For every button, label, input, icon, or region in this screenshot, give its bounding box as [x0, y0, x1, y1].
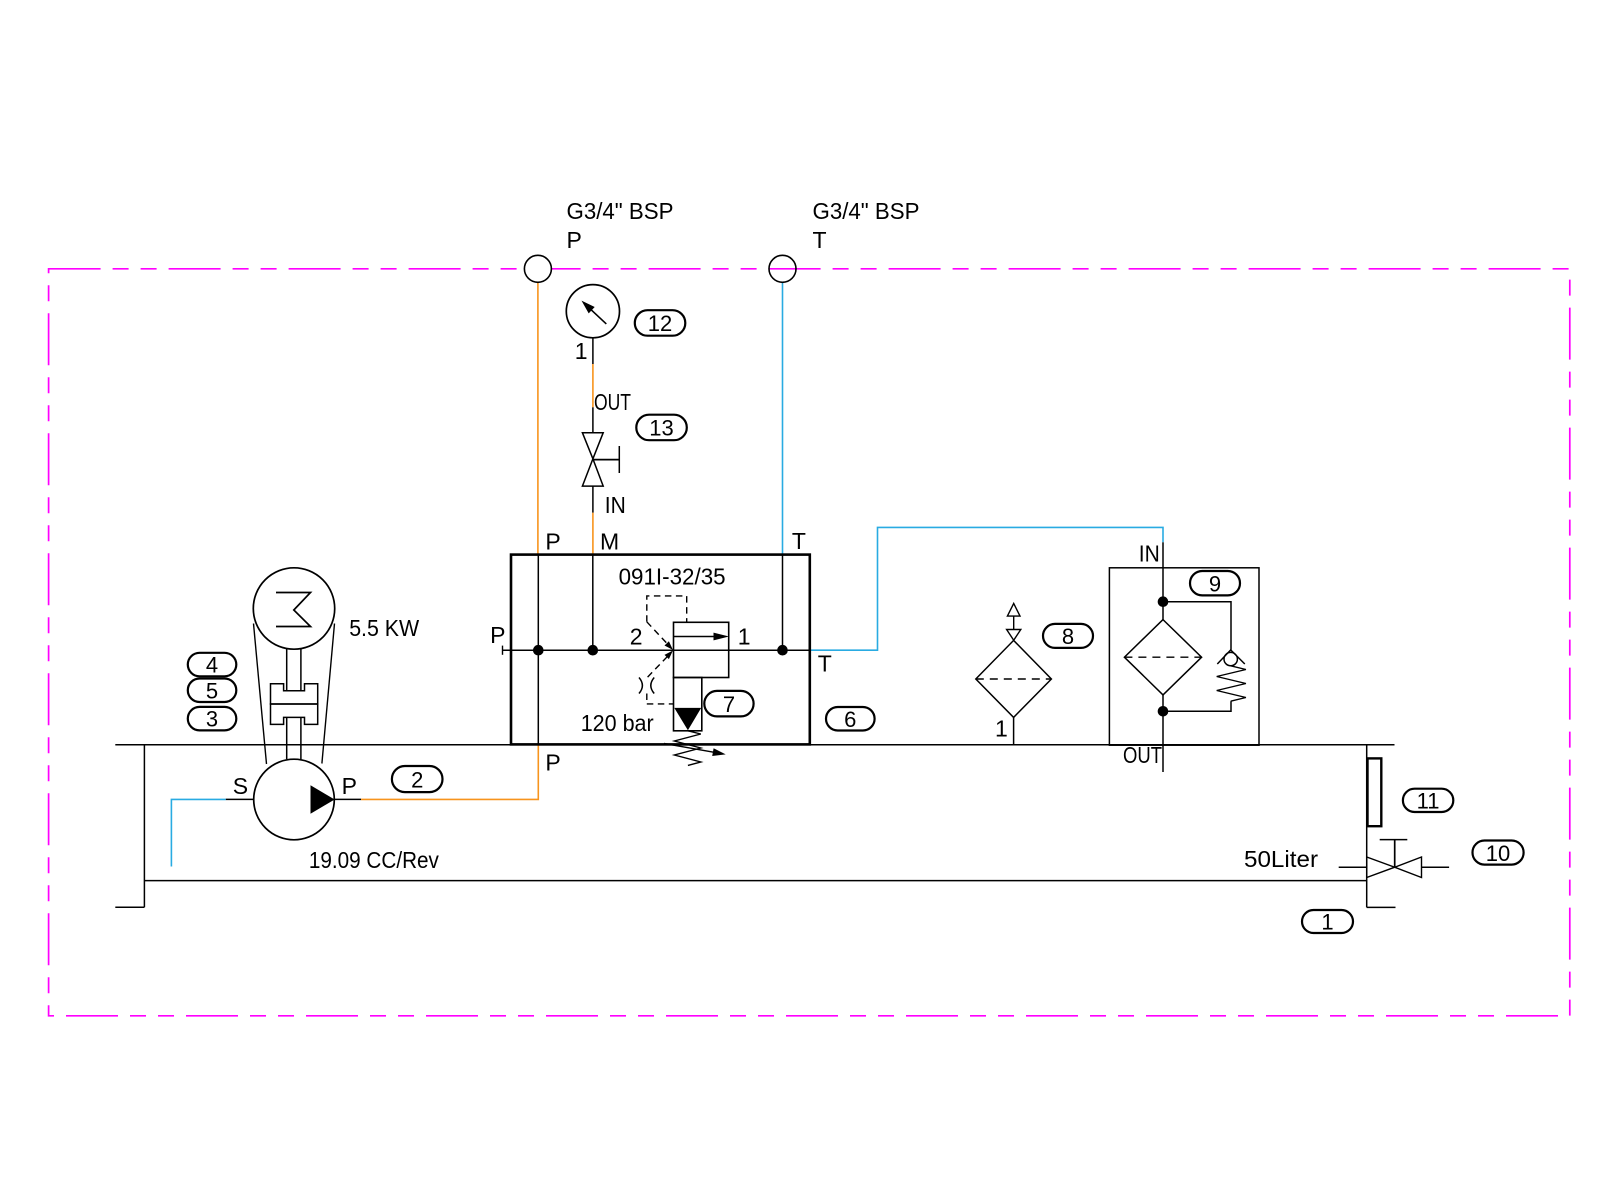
svg-text:3: 3 — [206, 707, 218, 732]
svg-text:P: P — [490, 622, 505, 648]
bellhousing 3 (left line) — [254, 624, 267, 765]
svg-text:4: 4 — [206, 653, 218, 678]
wire: pump outlet stub (black) — [335, 798, 361, 800]
manifold main gallery line P to T — [503, 649, 810, 651]
port P circle (G3/4 BSP) — [524, 255, 551, 282]
level gauge 11 — [1368, 758, 1382, 826]
svg-text:P: P — [567, 227, 582, 253]
relief valve spring — [674, 731, 700, 766]
filter element diamond — [1124, 620, 1201, 695]
return filter 9 (enclosure box) — [1109, 568, 1259, 745]
drain valve 10 (left triangle) — [1367, 857, 1395, 878]
svg-text:1: 1 — [575, 338, 588, 364]
breather top arrows — [1007, 603, 1020, 616]
svg-text:12: 12 — [648, 311, 672, 336]
svg-text:P: P — [545, 750, 560, 776]
coupling 5 (shaft lower) — [286, 717, 288, 759]
svg-text:G3/4" BSP: G3/4" BSP — [813, 198, 920, 224]
svg-text:T: T — [792, 528, 806, 554]
bypass spring — [1217, 666, 1246, 701]
wire: tank line T, cyan, port T down to manifold top — [782, 282, 784, 554]
svg-text:T: T — [813, 227, 827, 253]
balloon label 8 (breather) — [1043, 624, 1093, 648]
wire: gauge to needle valve OUT (black/orange/black) — [592, 338, 594, 364]
svg-text:091I-32/35: 091I-32/35 — [619, 564, 726, 590]
needle valve 13 (upper triangle) — [582, 433, 603, 459]
wire: filter IN drop (black) — [1162, 542, 1164, 601]
balloon label 1 (tank) — [1302, 910, 1353, 933]
balloon label 12 (gauge) — [635, 310, 686, 336]
tank T1 (reservoir outline) — [115, 745, 1395, 908]
manifold block 6 (outline) — [511, 555, 810, 745]
balloon label 3 (bellhousing) — [188, 707, 237, 731]
balloon label 2 (pump) — [392, 766, 443, 792]
coupling 5 (bottom flange) — [271, 704, 318, 724]
svg-text:2: 2 — [411, 768, 423, 793]
relief valve pilot dashed box (top) — [647, 596, 687, 622]
relief valve 7: body square — [674, 622, 729, 677]
enclosure boundary (power unit, chain line) — [49, 269, 1570, 1016]
wire: pressure line below manifold to pump, orange — [361, 744, 538, 799]
drain valve stem and handle — [1394, 840, 1396, 868]
svg-text:P: P — [545, 529, 560, 555]
balloon label 4 (motor) — [188, 653, 237, 677]
wire: T gallery inside manifold (black) — [782, 555, 784, 651]
pressure gauge 12 — [566, 285, 619, 338]
svg-text:IN: IN — [1139, 541, 1160, 567]
node: filter outlet junction — [1158, 706, 1169, 717]
svg-text:G3/4" BSP: G3/4" BSP — [567, 198, 674, 224]
filter bypass line (top) — [1163, 602, 1231, 650]
balloon label 13 (needle valve) — [636, 415, 687, 441]
wire: suction line, cyan, into tank — [171, 799, 225, 866]
filter outlet line to tank — [1162, 711, 1164, 772]
svg-text:50Liter: 50Liter — [1244, 846, 1318, 872]
filter vertical line through element — [1162, 602, 1164, 620]
svg-text:10: 10 — [1486, 841, 1510, 866]
balloon label 9 (return filter) — [1190, 571, 1240, 595]
relief valve lower body — [674, 678, 702, 731]
bypass check valve seat — [1217, 650, 1245, 664]
port tick at P stub — [502, 646, 504, 655]
svg-text:T: T — [818, 650, 832, 676]
electric motor 4 (circle) — [253, 568, 334, 649]
svg-text:IN: IN — [605, 492, 626, 518]
coupling 5 (shaft upper) — [286, 649, 288, 691]
balloon label 11 (level gauge) — [1403, 789, 1453, 812]
svg-text:OUT: OUT — [594, 389, 631, 415]
balloon label 6 (manifold) — [826, 707, 875, 731]
relief valve solid poppet triangle — [674, 708, 701, 730]
gauge needle — [591, 309, 607, 324]
relief valve pilot diagonal (lower) with arrowhead — [648, 656, 668, 677]
svg-text:5.5 KW: 5.5 KW — [349, 615, 419, 641]
node: T gallery junction — [777, 645, 788, 656]
svg-text:M: M — [600, 529, 619, 555]
svg-text:9: 9 — [1209, 572, 1221, 597]
pump flow triangle — [311, 785, 335, 814]
pilot choke )( — [639, 678, 642, 694]
breather stem — [1013, 717, 1015, 745]
drain valve side stubs — [1339, 866, 1367, 868]
wire: P gallery inside manifold (black) — [537, 555, 539, 745]
wire: M gallery inside manifold (black) — [592, 555, 594, 651]
pump 2 (circle) — [254, 759, 335, 840]
balloon label 10 (drain valve) — [1473, 841, 1524, 865]
balloon label 7 (relief valve) — [704, 691, 753, 717]
bypass check valve ball — [1224, 652, 1237, 665]
svg-text:13: 13 — [649, 416, 673, 441]
svg-text:1: 1 — [995, 716, 1008, 742]
needle valve handle — [593, 459, 620, 461]
filter bypass line (bottom) — [1163, 701, 1231, 711]
coupling 5 (top flange) — [271, 684, 318, 704]
svg-text:1: 1 — [738, 623, 751, 649]
svg-text:OUT: OUT — [1123, 742, 1162, 768]
svg-text:1: 1 — [1321, 909, 1333, 934]
svg-text:7: 7 — [723, 692, 735, 717]
node: filter inlet junction — [1158, 596, 1169, 607]
svg-text:11: 11 — [1417, 788, 1440, 813]
svg-text:120 bar: 120 bar — [581, 710, 654, 736]
pilot dashed (lower-left) — [646, 694, 648, 704]
svg-text:8: 8 — [1062, 624, 1074, 649]
bellhousing 3 (right line) — [322, 624, 335, 764]
svg-text:5: 5 — [206, 678, 218, 703]
wire: needle valve IN down to manifold M port (black then orange) — [592, 486, 594, 513]
wire: pressure line P, orange, port P down to manifold top — [537, 282, 539, 554]
svg-text:S: S — [233, 773, 248, 799]
svg-text:19.09 CC/Rev: 19.09 CC/Rev — [309, 847, 439, 873]
svg-text:2: 2 — [630, 624, 643, 650]
relief valve pilot diagonal (upper) with arrowhead — [647, 622, 668, 644]
port T circle (G3/4 BSP) — [769, 255, 796, 282]
node: M gallery junction — [588, 645, 599, 656]
needle valve 13 (lower triangle) — [582, 459, 603, 486]
relief valve adjustment arrow — [664, 743, 714, 752]
drain valve 10 (right triangle) — [1395, 857, 1422, 878]
svg-text:P: P — [342, 773, 357, 799]
relief valve flow arrow — [674, 636, 717, 638]
wire: suction line black stub at pump S — [226, 798, 254, 800]
node: P gallery junction — [533, 645, 544, 656]
svg-text:6: 6 — [844, 707, 856, 732]
air breather 8 (filter diamond) — [976, 640, 1052, 717]
balloon label 5 (coupling) — [188, 679, 237, 703]
wire: return line manifold T to filter IN, cyan — [810, 527, 1163, 650]
motor winding symbol — [276, 593, 311, 627]
